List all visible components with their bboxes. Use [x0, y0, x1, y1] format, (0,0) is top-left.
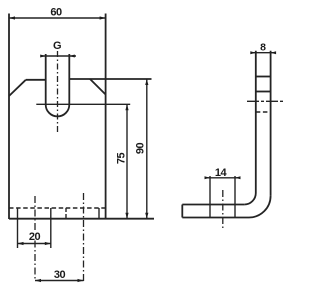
svg-text:90: 90 — [135, 143, 147, 155]
dim 8 left arrow — [250, 51, 256, 54]
dim 75 top arrow — [125, 104, 128, 110]
svg-text:G: G — [53, 40, 61, 52]
left chamfer — [9, 80, 26, 96]
slot2 right hidden edge — [98, 208, 100, 219]
hidden slot bottom side view — [256, 111, 271, 113]
svg-text:14: 14 — [215, 167, 228, 179]
dim 8 right arrow — [271, 51, 277, 54]
dim G right arrow — [69, 55, 75, 58]
dim G line — [41, 55, 76, 57]
plate top edge left segment — [26, 79, 46, 81]
svg-text:75: 75 — [116, 153, 128, 165]
svg-text:20: 20 — [29, 231, 41, 243]
dim 30 left arrow — [35, 279, 41, 282]
dim 14 line — [206, 177, 241, 179]
slot1 right hidden edge + 20 extension — [50, 208, 52, 248]
hidden bend line — [9, 207, 106, 209]
chamfer upper edge in side view — [256, 76, 271, 78]
bottom edge + extension — [9, 218, 154, 220]
svg-text:30: 30 — [54, 269, 66, 281]
dim 75 line — [126, 104, 128, 218]
front view left edge / 60 extension — [8, 14, 10, 220]
arc center horizontal centerline side view — [247, 100, 283, 102]
front view right edge / 60 extension — [105, 14, 107, 220]
flange slot centerline — [222, 190, 224, 229]
dim 60 right arrow — [100, 16, 106, 19]
dim G left arrow — [40, 55, 46, 58]
dim 60 line — [9, 17, 106, 19]
right chamfer — [90, 79, 106, 95]
svg-text:8: 8 — [260, 42, 266, 54]
dim 90 top arrow — [145, 79, 148, 85]
arc center horizontal centerline / 75 extension — [36, 103, 130, 105]
svg-text:60: 60 — [50, 7, 62, 19]
dim 75 bottom arrow — [125, 213, 128, 219]
flange bottom edge — [182, 217, 249, 219]
plate top edge right segment + 90 extension — [69, 78, 151, 80]
dim 60 left arrow — [9, 16, 15, 19]
slot left edge — [45, 54, 47, 105]
dim 20 right arrow — [45, 242, 51, 245]
slot2 centerline — [83, 193, 85, 281]
dim 30 right arrow — [78, 279, 84, 282]
side view strip right edge — [270, 51, 272, 196]
slot1 left hidden edge + 20 extension — [17, 208, 19, 248]
dim 90 bottom arrow — [145, 213, 148, 219]
slot vertical centerline — [57, 51, 59, 132]
outer bend arc — [249, 196, 271, 218]
slot bottom arc — [46, 105, 70, 117]
slot2 left hidden edge — [65, 208, 67, 219]
chamfer lower edge in side view — [256, 91, 271, 93]
flange slot left edge / 14 extension — [209, 176, 211, 218]
flange top edge — [182, 204, 244, 206]
flange slot right edge / 14 extension — [234, 176, 236, 218]
dim 14 left arrow — [205, 176, 211, 179]
slot right edge — [68, 54, 70, 105]
flange end cap — [181, 205, 183, 218]
side view strip left edge — [255, 51, 257, 193]
slot1 centerline — [34, 196, 36, 231]
inner bend arc — [244, 193, 256, 205]
dim 20 left arrow — [18, 242, 24, 245]
dim 90 line — [146, 79, 148, 219]
dim 30 line — [35, 280, 84, 282]
dim 8 line / strip top edge — [251, 52, 276, 54]
dim 14 right arrow — [235, 176, 241, 179]
dim 20 line — [18, 243, 51, 245]
